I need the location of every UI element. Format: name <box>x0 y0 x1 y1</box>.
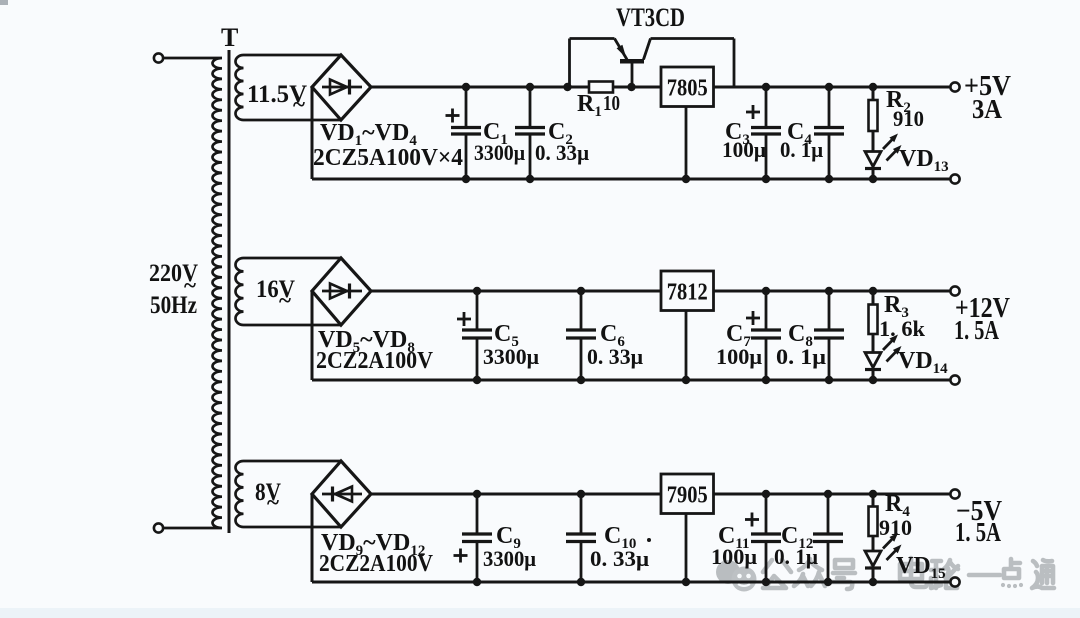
svg-text:50Hz: 50Hz <box>150 292 197 319</box>
svg-text:910: 910 <box>893 106 924 131</box>
svg-text:0. 1μ: 0. 1μ <box>774 544 818 569</box>
junction bottom x581 row2 <box>577 376 585 384</box>
wire cap column x766 row1 <box>765 87 768 129</box>
LED VD13 <box>872 131 875 152</box>
junction bottom x477 row2 <box>473 376 481 384</box>
svg-text:0. 1μ: 0. 1μ <box>780 137 823 162</box>
capacitor C11 plates <box>751 532 781 535</box>
junction rail x828 row3 <box>824 490 832 498</box>
wire rail regulator to terminal row2 <box>714 290 952 293</box>
wire bridge DC- to bottom rail row2 <box>311 291 314 380</box>
svg-text:100μ: 100μ <box>711 544 758 569</box>
junction bottom indicator row1 <box>869 175 877 183</box>
wire rail regulator to terminal row1 <box>714 86 952 89</box>
junction bottom x829 row1 <box>825 175 833 183</box>
junction bottom x829 row2 <box>825 376 833 384</box>
svg-text:3300μ: 3300μ <box>474 140 525 165</box>
capacitor C8 plates <box>814 328 844 331</box>
junction bottom indicator row2 <box>869 376 877 384</box>
bridge rectifier diamond row1 <box>312 55 371 120</box>
LED VD14 <box>872 334 875 353</box>
junction rail x477 row2 <box>473 287 481 295</box>
junction bottom x581 row3 <box>577 578 585 586</box>
svg-text:100μ: 100μ <box>716 344 763 369</box>
wire cap column x466 row1 <box>465 87 468 129</box>
capacitor C5 polarity + <box>457 318 471 321</box>
resistor R4 <box>872 494 875 507</box>
capacitor C3 plates <box>751 126 781 129</box>
svg-text:7805: 7805 <box>667 76 708 102</box>
junction rail x477 row3 <box>473 490 481 498</box>
capacitor C11 polarity + <box>745 518 759 521</box>
junction bottom x766 row3 <box>762 578 770 586</box>
svg-text:1. 6k: 1. 6k <box>879 316 926 341</box>
junction R1 left / emitter loop <box>563 83 571 91</box>
svg-text:100μ: 100μ <box>722 137 766 162</box>
junction bottom x530 row1 <box>526 175 534 183</box>
svg-text:VT3CD: VT3CD <box>616 3 685 32</box>
wire cap column x581 row2 <box>580 291 583 331</box>
primary terminal top <box>154 53 163 62</box>
svg-text:1. 5A: 1. 5A <box>954 315 999 345</box>
capacitor C9 polarity + <box>454 554 468 557</box>
wire cap column x829 row1 <box>828 87 831 129</box>
svg-text:0. 33μ: 0. 33μ <box>590 546 650 571</box>
resistor R1 <box>589 82 613 93</box>
wire emitter loop left <box>568 39 571 88</box>
svg-text:~: ~ <box>279 288 291 313</box>
bottom tint band <box>0 608 1080 618</box>
wire cap column x477 row2 <box>476 291 479 331</box>
svg-text:~: ~ <box>293 92 305 117</box>
secondary winding 11.5V <box>236 55 342 120</box>
wire 7905 ground pin <box>685 514 688 583</box>
wire rail bridge to regulator row3 <box>371 493 661 496</box>
svg-text:3A: 3A <box>972 94 1002 124</box>
junction rail x530 row1 <box>526 83 534 91</box>
capacitor C1 polarity + <box>446 114 460 117</box>
svg-text:1. 5A: 1. 5A <box>955 517 1001 547</box>
junction bottom x766 row1 <box>762 175 770 183</box>
svg-text:10: 10 <box>603 91 620 115</box>
wire rail bridge to regulator row2 <box>371 290 661 293</box>
capacitor C4 plates <box>814 126 844 129</box>
bridge rectifier diamond row2 <box>312 258 371 325</box>
bridge diode symbol row2 <box>322 290 362 293</box>
transistor VT3CD <box>615 39 628 60</box>
output terminal + row3 <box>950 489 959 498</box>
junction rail x766 row1 <box>762 83 770 91</box>
junction rail indicator row2 <box>869 287 877 295</box>
output terminal + row2 <box>950 286 959 295</box>
primary terminal bottom <box>154 523 163 532</box>
junction 7805 ground <box>682 175 690 183</box>
junction rail x581 row3 <box>577 490 585 498</box>
capacitor C1 plates <box>451 126 481 129</box>
junction 7905 ground <box>682 578 690 586</box>
secondary winding 16V <box>236 258 342 325</box>
junction bottom x477 row3 <box>473 578 481 586</box>
junction bottom x466 row1 <box>462 175 470 183</box>
svg-text:T: T <box>221 23 238 52</box>
transformer core <box>228 50 231 533</box>
svg-text:~: ~ <box>267 490 279 515</box>
capacitor C12 plates <box>813 532 843 535</box>
wire rail regulator to terminal row3 <box>714 493 952 496</box>
label C10 stray dot <box>647 538 651 542</box>
wire cap column x766 row3 <box>765 494 768 535</box>
capacitor C9 plates <box>462 532 492 535</box>
capacitor C6 plates <box>566 328 596 331</box>
junction rail x829 row2 <box>825 287 833 295</box>
output terminal - row2 <box>950 375 959 384</box>
svg-text:2CZ2A100V: 2CZ2A100V <box>319 551 434 577</box>
wire bridge DC- to bottom rail row1 <box>311 87 314 179</box>
secondary winding 8V <box>236 461 342 527</box>
regulator 7905 U3 <box>661 474 714 514</box>
watermark logo <box>716 560 757 592</box>
svg-text:2CZ2A100V: 2CZ2A100V <box>316 348 434 374</box>
scan corner artifact <box>0 0 8 5</box>
wire cap column x766 row2 <box>765 291 768 331</box>
junction rail x766 row2 <box>762 287 770 295</box>
bridge diode symbol row3 <box>322 493 362 496</box>
wire collector loop right <box>651 37 735 40</box>
LED VD15 <box>872 536 875 551</box>
junction rail x466 row1 <box>462 83 470 91</box>
bottom rail row3 <box>312 581 951 584</box>
bridge rectifier diamond row3 <box>312 461 371 527</box>
wire cap column x828 row3 <box>827 494 830 535</box>
wire cap column x477 row3 <box>476 494 479 535</box>
wire cap column x530 row1 <box>529 87 532 129</box>
bottom rail row2 <box>312 379 951 382</box>
capacitor C2 plates <box>515 126 545 129</box>
junction rail x766 row3 <box>762 490 770 498</box>
junction rail x829 row1 <box>825 83 833 91</box>
junction rail indicator row1 <box>869 83 877 91</box>
bottom rail row1 <box>312 178 951 181</box>
regulator 7805 U1 <box>661 67 714 107</box>
svg-text:3300μ: 3300μ <box>483 546 536 571</box>
transformer primary winding <box>163 58 222 528</box>
wire rail R1 to 7805 row1 <box>613 86 661 89</box>
resistor R3 <box>872 291 875 305</box>
output terminal - row3 <box>950 577 959 586</box>
wire 7812 ground pin <box>685 311 688 381</box>
capacitor C3 polarity + <box>746 111 760 114</box>
junction rail x581 row2 <box>577 287 585 295</box>
capacitor C10 plates <box>566 532 596 535</box>
output terminal + row1 <box>950 82 959 91</box>
junction bottom x766 row2 <box>762 376 770 384</box>
svg-text:0. 33μ: 0. 33μ <box>587 344 644 369</box>
capacitor C7 plates <box>751 328 781 331</box>
capacitor C7 polarity + <box>746 317 760 320</box>
output terminal - row1 <box>950 174 959 183</box>
wire rail bridge to R1 row1 <box>371 86 589 89</box>
wire 7805 ground pin <box>685 107 688 180</box>
wire cap column x581 row3 <box>580 494 583 535</box>
resistor R2 <box>872 87 875 100</box>
junction bottom x828 row3 <box>824 578 832 586</box>
junction 7812 ground <box>682 376 690 384</box>
svg-text:3300μ: 3300μ <box>483 344 540 369</box>
svg-text:0. 1μ: 0. 1μ <box>776 344 827 369</box>
watermark text 公众号：电路一点通 <box>763 558 1054 589</box>
regulator 7812 U2 <box>661 271 714 311</box>
svg-text:7905: 7905 <box>667 483 708 509</box>
svg-text:0. 33μ: 0. 33μ <box>535 140 589 165</box>
wire cap column x829 row2 <box>828 291 831 331</box>
svg-text:2CZ5A100V×4: 2CZ5A100V×4 <box>313 145 463 171</box>
svg-text:7812: 7812 <box>667 280 708 306</box>
wire bridge DC- to bottom rail row3 <box>311 494 314 582</box>
capacitor C5 plates <box>462 328 492 331</box>
junction rail indicator row3 <box>869 490 877 498</box>
bridge diode symbol row1 <box>322 86 362 89</box>
junction base / R1 right <box>627 83 635 91</box>
junction bottom indicator row3 <box>869 578 877 586</box>
